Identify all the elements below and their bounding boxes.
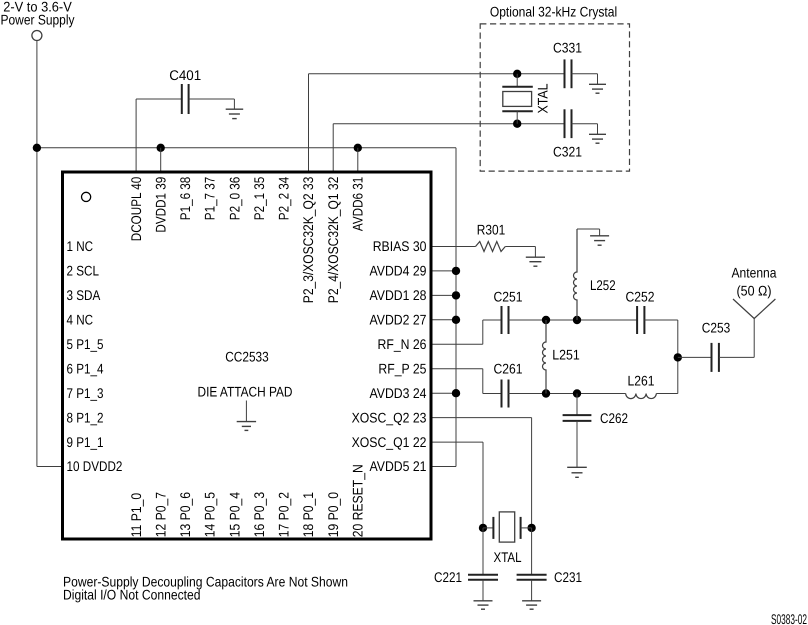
junction bus/AVDD4 bbox=[452, 267, 460, 275]
svg-text:20 RESET_N: 20 RESET_N bbox=[350, 464, 366, 537]
svg-text:AVDD3 24: AVDD3 24 bbox=[370, 385, 427, 401]
wire C401 to ground bbox=[189, 98, 235, 100]
ground R301 bbox=[526, 257, 545, 266]
wire power rail bbox=[37, 147, 456, 149]
svg-text:S0383-02: S0383-02 bbox=[771, 611, 807, 625]
wire XOSC_Q1 pin 22 bbox=[431, 441, 483, 443]
wire XOSC32K_Q1 to C321 bbox=[333, 123, 564, 125]
svg-text:L252: L252 bbox=[590, 277, 616, 293]
capacitor C253 bbox=[712, 343, 719, 372]
svg-text:C231: C231 bbox=[554, 569, 582, 585]
capacitor C221 bbox=[468, 575, 498, 580]
svg-text:P1_7 37: P1_7 37 bbox=[202, 177, 218, 221]
junction rail/AVDD6 bbox=[354, 144, 362, 152]
svg-text:1 NC: 1 NC bbox=[67, 238, 94, 254]
wire top rail left bbox=[483, 319, 502, 321]
wire right rail vertical bbox=[677, 320, 679, 394]
svg-text:AVDD6 31: AVDD6 31 bbox=[350, 177, 366, 232]
capacitor C401 bbox=[182, 84, 189, 114]
capacitor C261 bbox=[502, 380, 509, 408]
wire antenna riser bbox=[753, 319, 755, 358]
svg-text:P2_1 35: P2_1 35 bbox=[251, 177, 267, 221]
junction XTAL left node bbox=[479, 524, 487, 532]
wire RF_N riser bbox=[482, 320, 484, 344]
svg-text:C252: C252 bbox=[626, 289, 655, 305]
junction bottom rail / L251 bbox=[542, 389, 550, 397]
wire XOSC_Q2 riser down bbox=[531, 418, 533, 528]
junction right rail / C253 bbox=[674, 353, 682, 361]
capacitor C321 bbox=[565, 109, 572, 138]
svg-text:C331: C331 bbox=[553, 40, 582, 56]
ground C221 bbox=[474, 601, 493, 609]
inductor L252 bbox=[574, 229, 578, 320]
svg-text:AVDD1 28: AVDD1 28 bbox=[370, 287, 427, 303]
svg-text:Power Supply: Power Supply bbox=[1, 12, 75, 28]
svg-text:L251: L251 bbox=[552, 347, 580, 363]
svg-text:RF_P 25: RF_P 25 bbox=[378, 360, 426, 376]
junction bus/AVDD3 bbox=[452, 389, 460, 397]
ground C331 bbox=[589, 84, 606, 93]
svg-text:13 P0_6: 13 P0_6 bbox=[177, 492, 193, 538]
wire supply to pin 10 DVDD2 bbox=[37, 466, 63, 468]
inductor L261 bbox=[626, 394, 657, 399]
wire AVDD4 pin 29 stub bbox=[431, 270, 456, 272]
capacitor C252 bbox=[637, 306, 644, 334]
svg-text:Antenna: Antenna bbox=[732, 265, 777, 281]
svg-text:6 P1_4: 6 P1_4 bbox=[67, 360, 104, 376]
wire R301 to ground bbox=[505, 246, 535, 248]
svg-text:RBIAS 30: RBIAS 30 bbox=[373, 238, 427, 254]
svg-text:10 DVDD2: 10 DVDD2 bbox=[67, 458, 123, 474]
wire C321 to ground bbox=[572, 123, 598, 125]
wire C231 to ground bbox=[531, 580, 533, 601]
wire RF_P pin 25 bbox=[431, 368, 483, 370]
ground L252 bbox=[590, 236, 609, 245]
wire supply vertical bbox=[36, 41, 38, 467]
wire DVDD1 pin 39 stub bbox=[160, 148, 162, 172]
wire C262 branch bbox=[576, 394, 578, 416]
svg-text:AVDD2 27: AVDD2 27 bbox=[370, 312, 427, 328]
svg-text:P1_6 38: P1_6 38 bbox=[177, 177, 193, 221]
junction supply/rail bbox=[33, 144, 41, 152]
svg-text:XOSC_Q1 22: XOSC_Q1 22 bbox=[352, 434, 427, 450]
wire C253 to antenna bbox=[719, 356, 754, 358]
crystal XTAL 32-MHz bbox=[483, 512, 532, 542]
svg-text:AVDD4 29: AVDD4 29 bbox=[370, 263, 427, 279]
svg-text:C321: C321 bbox=[553, 144, 582, 160]
svg-text:C221: C221 bbox=[434, 569, 462, 585]
capacitor C231 bbox=[517, 575, 547, 580]
ground C231 bbox=[522, 601, 541, 609]
svg-text:L261: L261 bbox=[628, 373, 655, 389]
resistor R301 bbox=[476, 242, 506, 252]
svg-text:3 SDA: 3 SDA bbox=[67, 287, 101, 303]
wire DCOUPL to C401 bbox=[136, 98, 182, 100]
svg-text:C253: C253 bbox=[702, 320, 731, 336]
wire DCOUPL riser bbox=[135, 99, 137, 172]
svg-text:18 P0_1: 18 P0_1 bbox=[300, 492, 316, 538]
svg-text:C261: C261 bbox=[494, 361, 523, 377]
junction XTAL right node bbox=[527, 524, 535, 532]
svg-text:2 SCL: 2 SCL bbox=[67, 263, 100, 279]
capacitor C331 bbox=[565, 59, 572, 88]
inductor L251 bbox=[543, 320, 547, 394]
wire C331 ground stub bbox=[597, 74, 599, 85]
wire RF_P riser bbox=[482, 369, 484, 394]
wire to C231 bbox=[531, 528, 533, 575]
svg-text:DVDD1 39: DVDD1 39 bbox=[152, 177, 168, 233]
svg-text:19 P0_0: 19 P0_0 bbox=[325, 492, 341, 538]
svg-text:9 P1_1: 9 P1_1 bbox=[67, 434, 104, 450]
svg-text:C262: C262 bbox=[600, 410, 628, 426]
wire C262 to ground bbox=[576, 421, 578, 467]
wire R301 ground stub bbox=[534, 247, 536, 258]
ground C401 bbox=[226, 109, 244, 118]
svg-text:5 P1_5: 5 P1_5 bbox=[67, 336, 104, 352]
power supply terminal bbox=[32, 31, 42, 41]
svg-text:CC2533: CC2533 bbox=[225, 349, 269, 365]
svg-text:11 P1_0: 11 P1_0 bbox=[128, 493, 144, 538]
antenna bbox=[733, 299, 775, 319]
capacitor C262 bbox=[563, 415, 592, 421]
svg-text:16 P0_3: 16 P0_3 bbox=[251, 492, 267, 538]
wire L252 to ground bbox=[577, 228, 600, 230]
wire bottom rail middle bbox=[508, 393, 625, 395]
junction top rail / L252 bbox=[573, 316, 581, 324]
wire top rail middle bbox=[508, 319, 637, 321]
svg-text:Optional 32-kHz Crystal: Optional 32-kHz Crystal bbox=[490, 4, 617, 20]
svg-text:P2_3/XOSC32K_Q2 33: P2_3/XOSC32K_Q2 33 bbox=[300, 177, 316, 304]
svg-text:XTAL: XTAL bbox=[494, 549, 522, 565]
svg-text:(50 Ω): (50 Ω) bbox=[737, 283, 772, 299]
wire L252 ground stub bbox=[599, 229, 601, 236]
ground C262 bbox=[567, 467, 587, 477]
wire XOSC_Q1 riser down bbox=[482, 442, 484, 528]
svg-text:7 P1_3: 7 P1_3 bbox=[67, 385, 104, 401]
svg-text:P2_0 36: P2_0 36 bbox=[226, 177, 242, 221]
wire L261 to right rail bbox=[656, 393, 678, 395]
svg-text:8 P1_2: 8 P1_2 bbox=[67, 409, 104, 425]
svg-text:P2_4/XOSC32K_Q1 32: P2_4/XOSC32K_Q1 32 bbox=[325, 177, 341, 304]
wire XOSC_Q2 pin 23 bbox=[431, 417, 532, 419]
svg-text:DIE ATTACH PAD: DIE ATTACH PAD bbox=[198, 384, 293, 400]
junction XTAL bottom node bbox=[513, 120, 521, 128]
wire C331 to ground bbox=[572, 73, 598, 75]
wire C401 ground stub bbox=[233, 99, 235, 109]
svg-text:Digital I/O Not Connected: Digital I/O Not Connected bbox=[63, 587, 201, 603]
svg-text:R301: R301 bbox=[477, 222, 506, 238]
svg-text:AVDD5 21: AVDD5 21 bbox=[370, 458, 427, 474]
wire C321 ground stub bbox=[597, 124, 599, 135]
junction bottom rail / C262 bbox=[573, 389, 581, 397]
pin 1 indicator circle bbox=[82, 192, 91, 201]
wire RF_N pin 26 bbox=[431, 343, 483, 345]
svg-text:XOSC_Q2 23: XOSC_Q2 23 bbox=[352, 409, 427, 425]
wire C221 to ground bbox=[482, 580, 484, 601]
IC U1 CC2533 bbox=[63, 172, 432, 539]
wire AVDD2 pin 27 stub bbox=[431, 319, 456, 321]
junction top rail / L251 bbox=[542, 316, 550, 324]
wire to C253 bbox=[678, 356, 712, 358]
wire die attach pad ground stub bbox=[245, 401, 247, 422]
wire RBIAS pin 30 to R301 bbox=[431, 246, 476, 248]
svg-text:12 P0_7: 12 P0_7 bbox=[152, 492, 168, 538]
wire AVDD1 pin 28 stub bbox=[431, 294, 456, 296]
junction rail/DVDD1 bbox=[157, 144, 165, 152]
svg-text:DCOUPL 40: DCOUPL 40 bbox=[128, 177, 144, 242]
svg-text:14 P0_5: 14 P0_5 bbox=[202, 492, 218, 538]
dashed box optional 32-kHz crystal bbox=[480, 24, 629, 171]
capacitor C251 bbox=[502, 306, 509, 334]
wire P2_4/XOSC32K_Q1 riser bbox=[332, 124, 334, 172]
svg-text:C251: C251 bbox=[494, 289, 523, 305]
ground die attach pad bbox=[237, 422, 256, 431]
wire AVDD bus vertical bbox=[455, 148, 457, 467]
wire AVDD6 pin 31 stub bbox=[357, 148, 359, 172]
wire bus to AVDD5 pin 21 bbox=[431, 466, 456, 468]
wire top rail right bbox=[644, 319, 677, 321]
junction bus/AVDD1 bbox=[452, 291, 460, 299]
wire bottom rail left bbox=[483, 393, 502, 395]
svg-text:4 NC: 4 NC bbox=[67, 312, 94, 328]
junction XTAL top node bbox=[513, 70, 521, 78]
wire to C221 bbox=[482, 528, 484, 575]
svg-text:P2_2 34: P2_2 34 bbox=[276, 177, 292, 221]
wire P2_3/XOSC32K_Q2 riser bbox=[308, 74, 310, 172]
svg-text:15 P0_4: 15 P0_4 bbox=[226, 492, 242, 538]
svg-text:C401: C401 bbox=[169, 67, 201, 83]
ground C321 bbox=[589, 134, 606, 143]
crystal XTAL 32-kHz bbox=[502, 74, 533, 124]
wire AVDD3 pin 24 stub bbox=[431, 392, 456, 394]
svg-text:17 P0_2: 17 P0_2 bbox=[276, 492, 292, 538]
junction bus/AVDD2 bbox=[452, 316, 460, 324]
svg-text:RF_N 26: RF_N 26 bbox=[378, 336, 427, 352]
wire XOSC32K_Q2 to C331 bbox=[309, 73, 565, 75]
svg-text:XTAL: XTAL bbox=[534, 83, 550, 113]
